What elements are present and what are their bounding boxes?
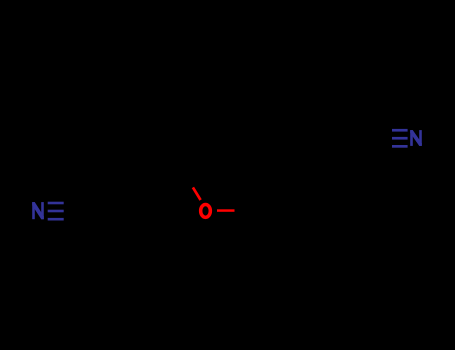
atom label O (ether oxygen) xyxy=(201,204,211,217)
bond C-O (diagonal, oxygen half, red) xyxy=(193,187,201,200)
triple bond C#N (right nitrile, blue half) xyxy=(392,129,408,148)
atom label N (left nitrile nitrogen) xyxy=(32,202,44,219)
triple bond C#N (left nitrile, blue half) xyxy=(48,202,64,221)
atom label N (right nitrile nitrogen) xyxy=(410,130,422,146)
bond O-C (horizontal, oxygen half, red) xyxy=(217,209,235,212)
